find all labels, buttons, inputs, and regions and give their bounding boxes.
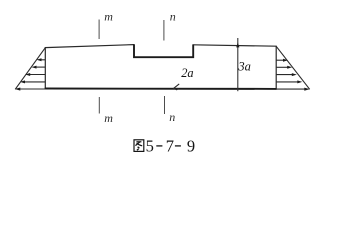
beam outline (stepped plate) [45, 45, 276, 89]
right load arrow 4 [276, 81, 299, 83]
left load arrow 3 [28, 74, 45, 76]
svg-text:n: n [169, 110, 175, 124]
svg-text:9: 9 [187, 136, 195, 155]
left load arrow 5 (bottom) [18, 88, 45, 90]
svg-text:m: m [104, 111, 113, 125]
section line n-n (top mark) [163, 20, 165, 41]
section line m-m (top mark) [98, 20, 100, 40]
notch (recess in top edge) [134, 44, 193, 57]
wire bottom edge of beam [45, 88, 277, 90]
section line n-n (bottom mark) [164, 96, 166, 114]
left load arrow 4 [23, 81, 45, 83]
svg-text:2a: 2a [181, 66, 193, 80]
left triangular distributed load: hypotenuse [15, 48, 45, 90]
svg-text:3a: 3a [237, 60, 251, 74]
caption character 图 (drawn glyph) [134, 140, 144, 152]
dimension line 3a (vertical) [237, 38, 239, 91]
svg-text:n: n [170, 10, 176, 24]
section line m-m (bottom mark) [98, 97, 100, 114]
svg-text:7: 7 [166, 136, 174, 155]
leader tick for 2a on bottom edge [173, 84, 179, 89]
right load arrow 2 [276, 66, 289, 68]
right load arrow 1 [276, 59, 285, 61]
left load arrow 2 [35, 66, 46, 68]
svg-text:5: 5 [146, 136, 154, 155]
right load arrow 5 (bottom) [276, 88, 306, 90]
right triangular distributed load: hypotenuse [276, 46, 310, 89]
svg-text:m: m [104, 10, 113, 24]
right load arrow 3 [276, 74, 294, 76]
left load arrow 1 [40, 59, 46, 61]
dimension arrowhead (up, at top edge) [236, 42, 239, 47]
